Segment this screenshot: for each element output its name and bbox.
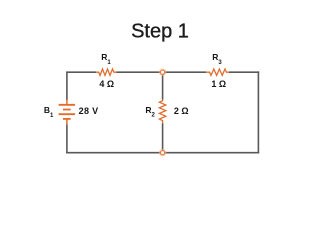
svg-text:R2: R2 [145, 105, 155, 119]
wire: top-right segment (R3 to right corner) [229, 71, 259, 73]
svg-text:2 Ω: 2 Ω [174, 106, 189, 116]
node A (top junction) [161, 70, 165, 74]
wire: top-left segment (left corner to R1) [67, 71, 96, 73]
svg-text:1 Ω: 1 Ω [211, 79, 226, 89]
node B (bottom junction) [161, 151, 165, 155]
battery plate short [63, 109, 71, 111]
svg-text:Step 1: Step 1 [131, 21, 189, 43]
wire: middle rail upper (node to R2) [162, 72, 164, 99]
battery plate long top [59, 104, 76, 106]
battery B1 symbol [59, 100, 76, 125]
battery top lead stub [66, 100, 68, 104]
wire: top-middle segment (R1 to R3, through node) [117, 71, 207, 73]
wire: bottom rail [66, 152, 259, 154]
svg-text:R1: R1 [101, 52, 111, 66]
battery bottom lead stub [66, 120, 68, 125]
svg-text:28 V: 28 V [79, 106, 99, 116]
svg-text:R3: R3 [212, 52, 222, 66]
svg-text:B1: B1 [44, 105, 54, 119]
svg-text:4 Ω: 4 Ω [99, 79, 114, 89]
battery plate long bottom [59, 113, 76, 115]
wire: middle rail lower (R2 to bottom node) [162, 123, 164, 153]
resistor R1 (zigzag) [96, 69, 117, 75]
wire: left rail upper (corner to battery) [66, 71, 68, 100]
resistor R3 (zigzag) [206, 69, 229, 75]
resistor R2 (vertical zigzag) [159, 100, 165, 124]
battery plate short bottom [63, 118, 71, 120]
wire: right rail [257, 71, 259, 153]
wire: left rail lower (battery to bottom corner) [66, 124, 68, 153]
node A (top junction, glow) [160, 69, 166, 75]
node B (bottom junction, glow) [160, 150, 166, 156]
